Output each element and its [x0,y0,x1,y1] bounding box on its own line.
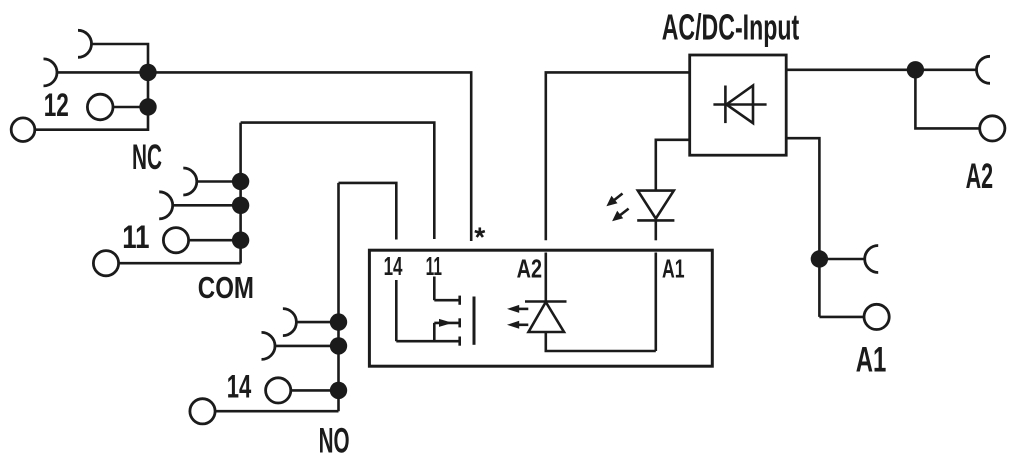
wire NO column to relay pin 14 [339,183,397,240]
wire junction column 12 down to corner [35,72,148,129]
svg-text:A1: A1 [662,255,685,283]
socket circle A1 [864,304,889,329]
MOSFET drain contact tick [458,296,461,305]
svg-text:AC/DC-Input: AC/DC-Input [662,6,800,47]
socket circle 12 [87,94,113,120]
junction J9 [907,61,924,78]
wire junction J10 to A1 arc [819,258,864,261]
wire AC/DC box to A2 terminal [786,69,976,72]
wire from arc 12-b to junction J1 [57,71,148,74]
wire AC/DC box to status LED branch [656,140,690,191]
svg-text:NO: NO [319,421,350,460]
terminal arc A1 [865,246,878,273]
junction J7 [330,337,347,354]
socket circle NO big [190,399,215,424]
wire pin 14 internal [395,280,398,341]
status LED emission arrow 1 [606,194,622,207]
junction J3 [232,173,249,190]
AC/DC input box [690,55,787,155]
coil input arrow 2 [507,321,528,329]
socket circle COM big [93,251,118,276]
junction J5 [232,232,249,249]
wire socket 14 to junction J8 [291,389,339,392]
asterisk * pin marker [475,227,485,237]
status LED cathode bar [637,219,674,222]
wire COM column to relay pin 11 [241,123,435,239]
junction J10 [811,250,828,267]
svg-text:11: 11 [122,219,149,255]
socket circle 11 [163,228,188,253]
socket circle 14 [266,378,291,403]
wire arc NC-a to junction J3 [197,180,241,183]
terminal arc NC-b [159,192,172,219]
MOSFET body contact tick [458,318,461,327]
svg-text:A2: A2 [966,157,994,196]
MOSFET body stub with arrow [434,323,459,341]
wire A2 coil drop and feed to AC/DC box [546,72,690,240]
terminal arc NC-a [183,168,197,195]
svg-text:A1: A1 [856,341,887,380]
bridge diode triangle [726,86,753,124]
junction J2 [139,98,156,115]
terminal arc NO-a [283,309,297,336]
MOSFET channel bar [473,297,476,345]
bridge diode horizontal line [713,103,766,106]
socket circle A2 [980,116,1005,141]
coil input arrow 1 [507,305,528,313]
junction J6 [330,313,347,330]
wire arc NO-b to junction J7 [275,345,339,348]
wire COM vertical column [239,123,242,264]
wire socket 12 to junction J2 [113,106,148,109]
terminal arc 12-a [78,30,92,57]
wire pin A1 internal [654,253,657,352]
wire A1 corner to socket [819,316,864,319]
svg-text:A2: A2 [517,255,542,283]
junction J4 [232,197,249,214]
MOSFET source line [396,340,459,343]
coil diode triangle [529,303,565,332]
svg-text:NC: NC [132,138,162,177]
wire COM corner to big socket [119,262,241,265]
MOSFET body arrowhead [439,319,453,327]
status LED emission arrow 2 [612,209,629,222]
wire from arc 12-a to junction column [92,44,149,72]
svg-text:14: 14 [227,369,252,405]
bridge diode cathode bar [724,86,727,124]
svg-text:12: 12 [44,87,69,123]
MOSFET source contact tick [458,337,461,346]
wire arc NO-a to junction J6 [296,321,338,324]
MOSFET drain stub [434,299,459,302]
junction J8 [330,382,347,399]
terminal arc 12-b [44,59,58,86]
wire NO vertical column [337,183,340,411]
wire socket 11 to junction J5 [189,239,241,242]
relay module box [369,250,712,366]
wire arc NC-b to junction J4 [173,204,241,207]
socket circle 12 big [11,118,35,142]
wire status LED to relay box [654,220,657,240]
coil diode cathode bar [525,300,567,303]
wire main rail to asterisk pin [148,72,471,241]
status LED triangle [638,191,674,219]
svg-text:14: 14 [384,253,403,281]
wire pin 11 internal [433,277,436,301]
wire pin A2 internal [544,253,547,302]
wire NO corner to big socket [215,410,338,413]
terminal arc NO-b [262,332,276,359]
wire AC/DC box to A1 terminal column [786,138,819,317]
wire junction J9 down to A2 socket [915,70,979,129]
coil diode to bottom wire [546,332,656,351]
terminal arc A2 [977,56,990,83]
svg-text:COM: COM [198,271,254,305]
junction J1 [139,64,156,81]
